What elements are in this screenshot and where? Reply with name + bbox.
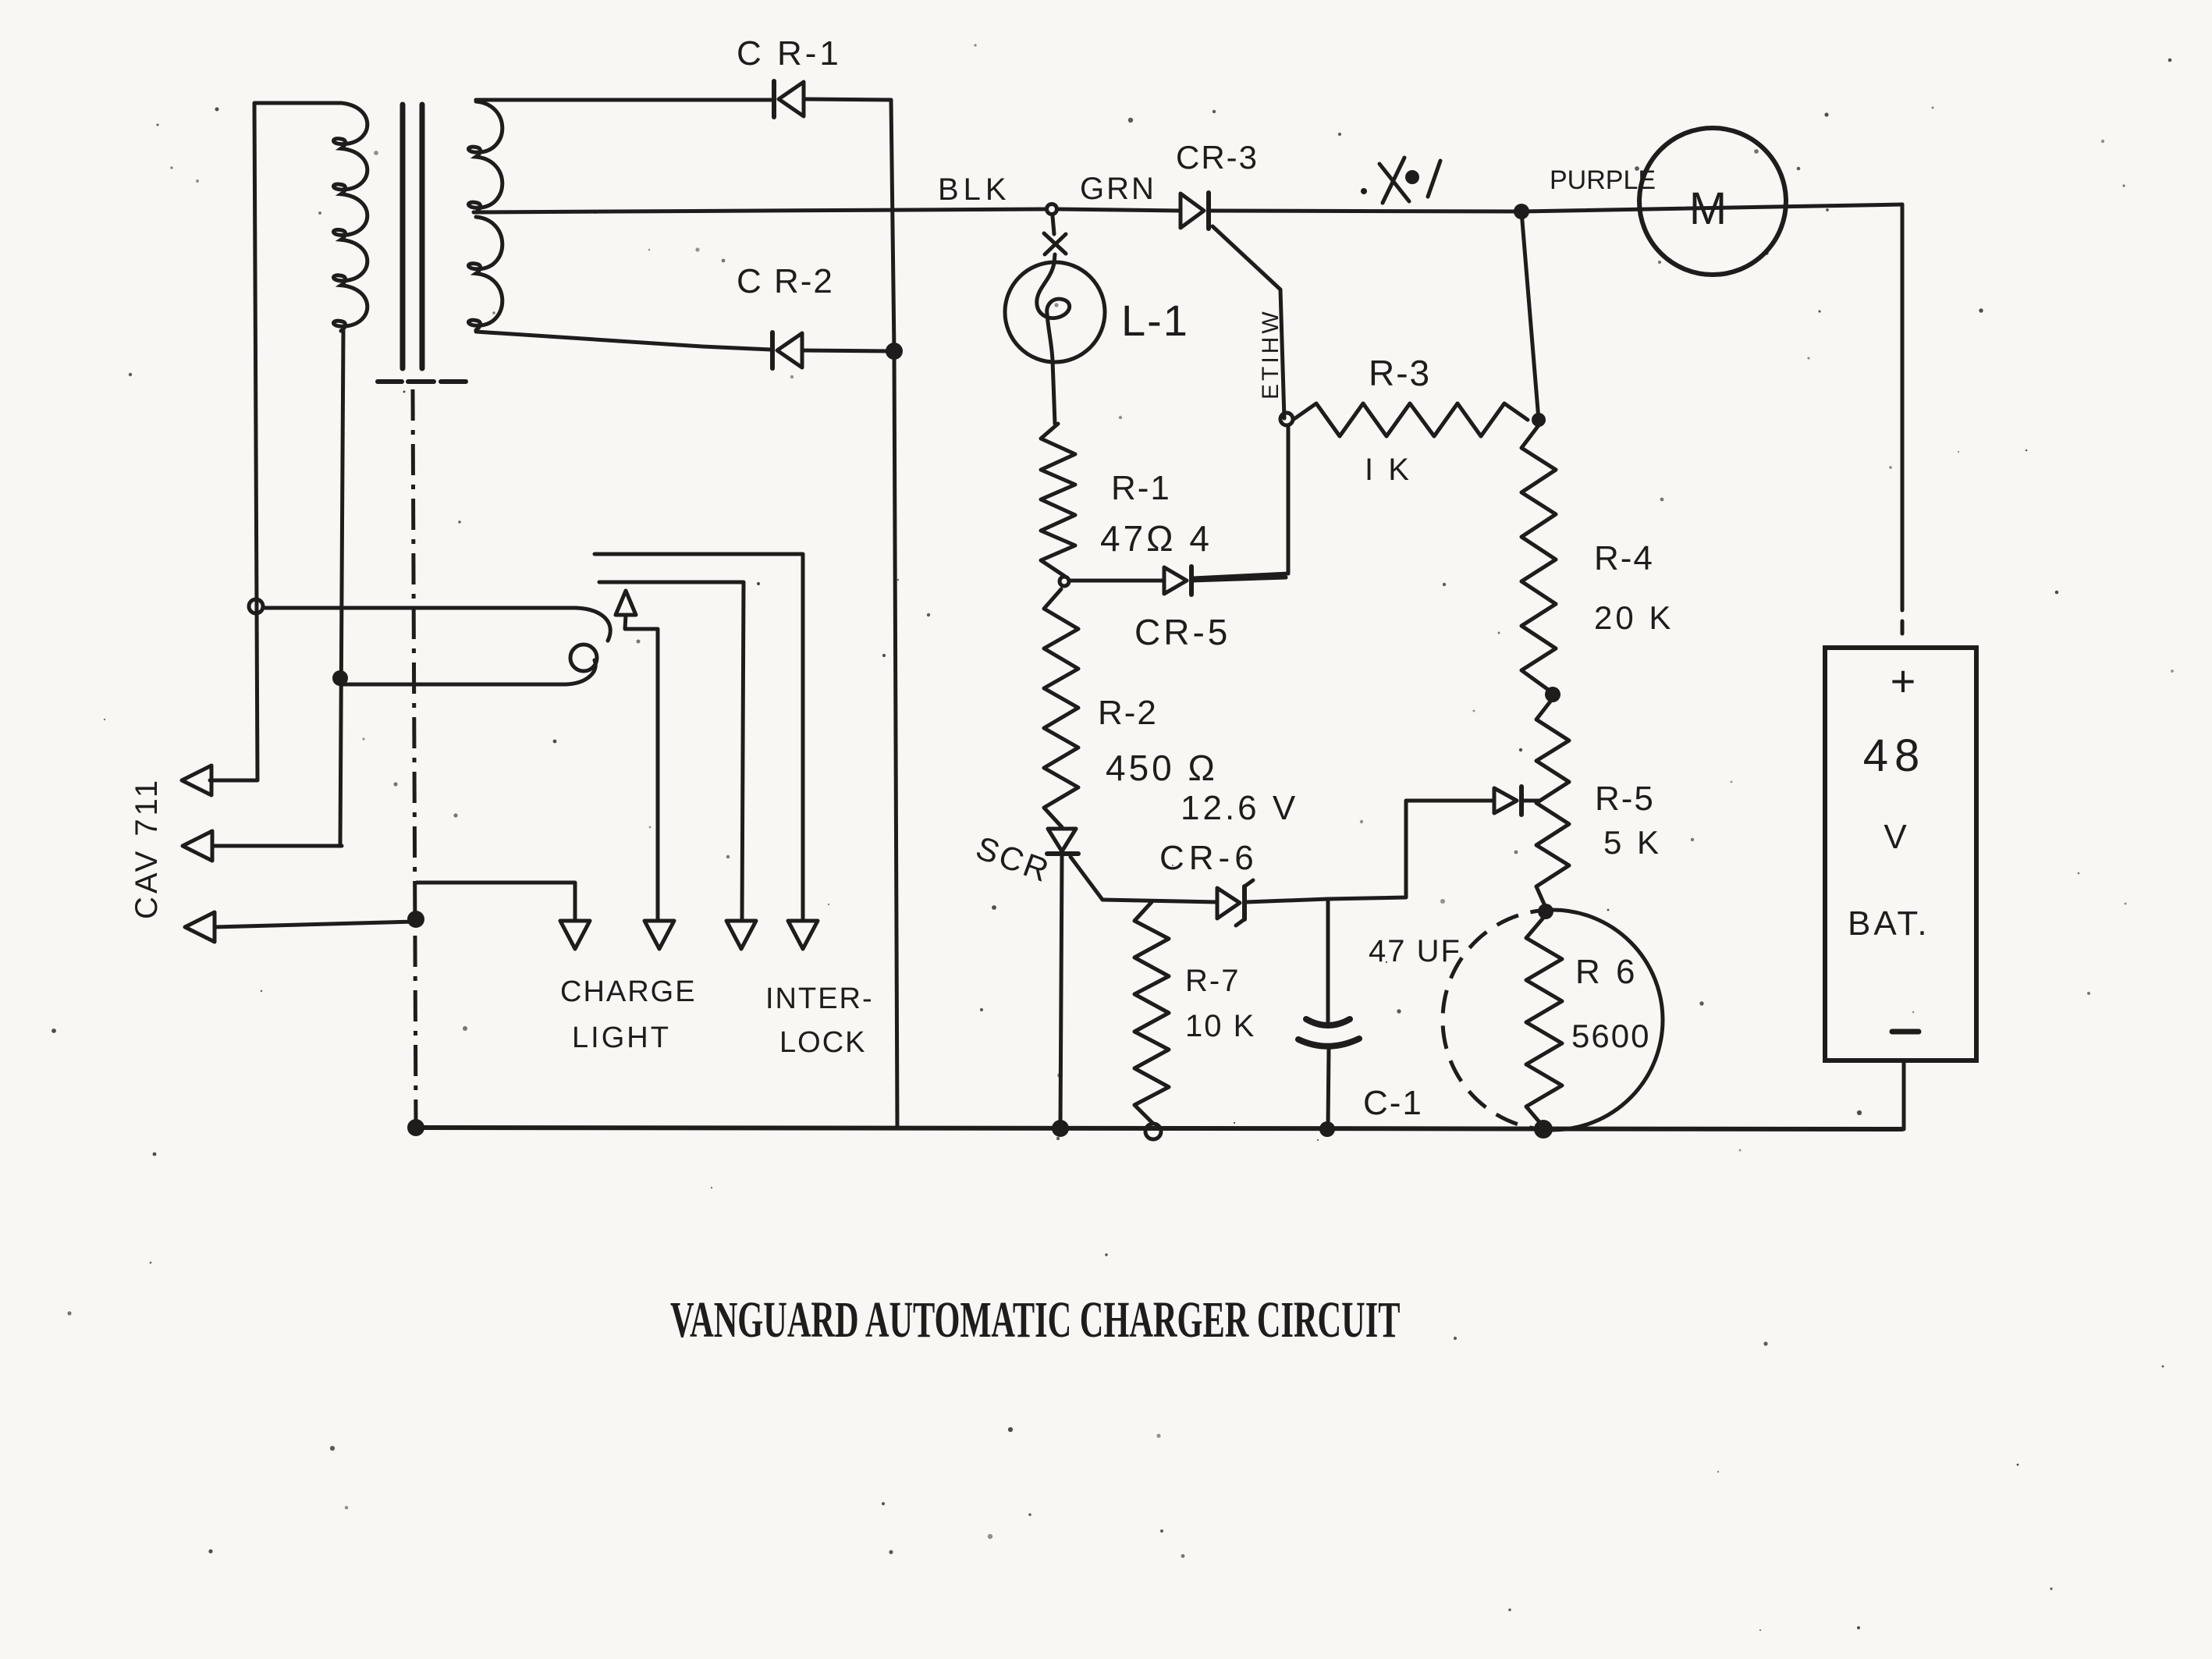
svg-text:GRN: GRN [1080, 172, 1156, 206]
svg-text:47Ω 4: 47Ω 4 [1100, 518, 1213, 559]
svg-text:VANGUARD AUTOMATIC CHARGER CIR: VANGUARD AUTOMATIC CHARGER CIRCUIT [670, 1291, 1400, 1348]
svg-text:BAT.: BAT. [1848, 904, 1930, 943]
svg-text:C-1: C-1 [1363, 1084, 1423, 1122]
svg-text:20 K: 20 K [1594, 599, 1674, 636]
svg-text:CR-5: CR-5 [1134, 612, 1230, 652]
svg-text:CR-3: CR-3 [1176, 139, 1259, 176]
svg-text:5600: 5600 [1571, 1018, 1650, 1054]
svg-text:LOCK: LOCK [779, 1026, 866, 1059]
svg-text:C R-1: C R-1 [737, 34, 842, 73]
svg-text:R-7: R-7 [1185, 964, 1240, 998]
svg-text:PURPLE: PURPLE [1550, 165, 1656, 195]
svg-text:R-3: R-3 [1369, 353, 1431, 393]
svg-text:LIGHT: LIGHT [572, 1021, 671, 1054]
svg-text:48: 48 [1863, 730, 1926, 781]
svg-text:CR-6: CR-6 [1159, 839, 1259, 877]
svg-text:L-1: L-1 [1121, 296, 1189, 345]
svg-text:M: M [1689, 183, 1727, 234]
svg-text:R-5: R-5 [1595, 780, 1655, 818]
svg-text:R 6: R 6 [1575, 953, 1638, 991]
svg-text:450 Ω: 450 Ω [1106, 748, 1218, 788]
svg-text:I K: I K [1365, 453, 1412, 487]
svg-text:47 UF: 47 UF [1369, 934, 1461, 968]
svg-text:CHARGE: CHARGE [560, 975, 697, 1008]
svg-text:10 K: 10 K [1185, 1009, 1255, 1043]
svg-text:INTER-: INTER- [765, 982, 874, 1015]
svg-text:CAV 711: CAV 711 [130, 777, 164, 919]
svg-text:R-1: R-1 [1111, 469, 1171, 507]
svg-text:R-4: R-4 [1594, 539, 1654, 577]
svg-text:+: + [1891, 656, 1916, 705]
svg-text:12.6 V: 12.6 V [1181, 789, 1298, 827]
svg-text:C R-2: C R-2 [737, 262, 834, 300]
svg-text:ETIHW: ETIHW [1258, 308, 1284, 400]
svg-text:R-2: R-2 [1098, 694, 1158, 732]
svg-text:V: V [1884, 818, 1907, 856]
svg-text:BLK: BLK [938, 172, 1011, 207]
svg-text:5 K: 5 K [1603, 824, 1662, 861]
